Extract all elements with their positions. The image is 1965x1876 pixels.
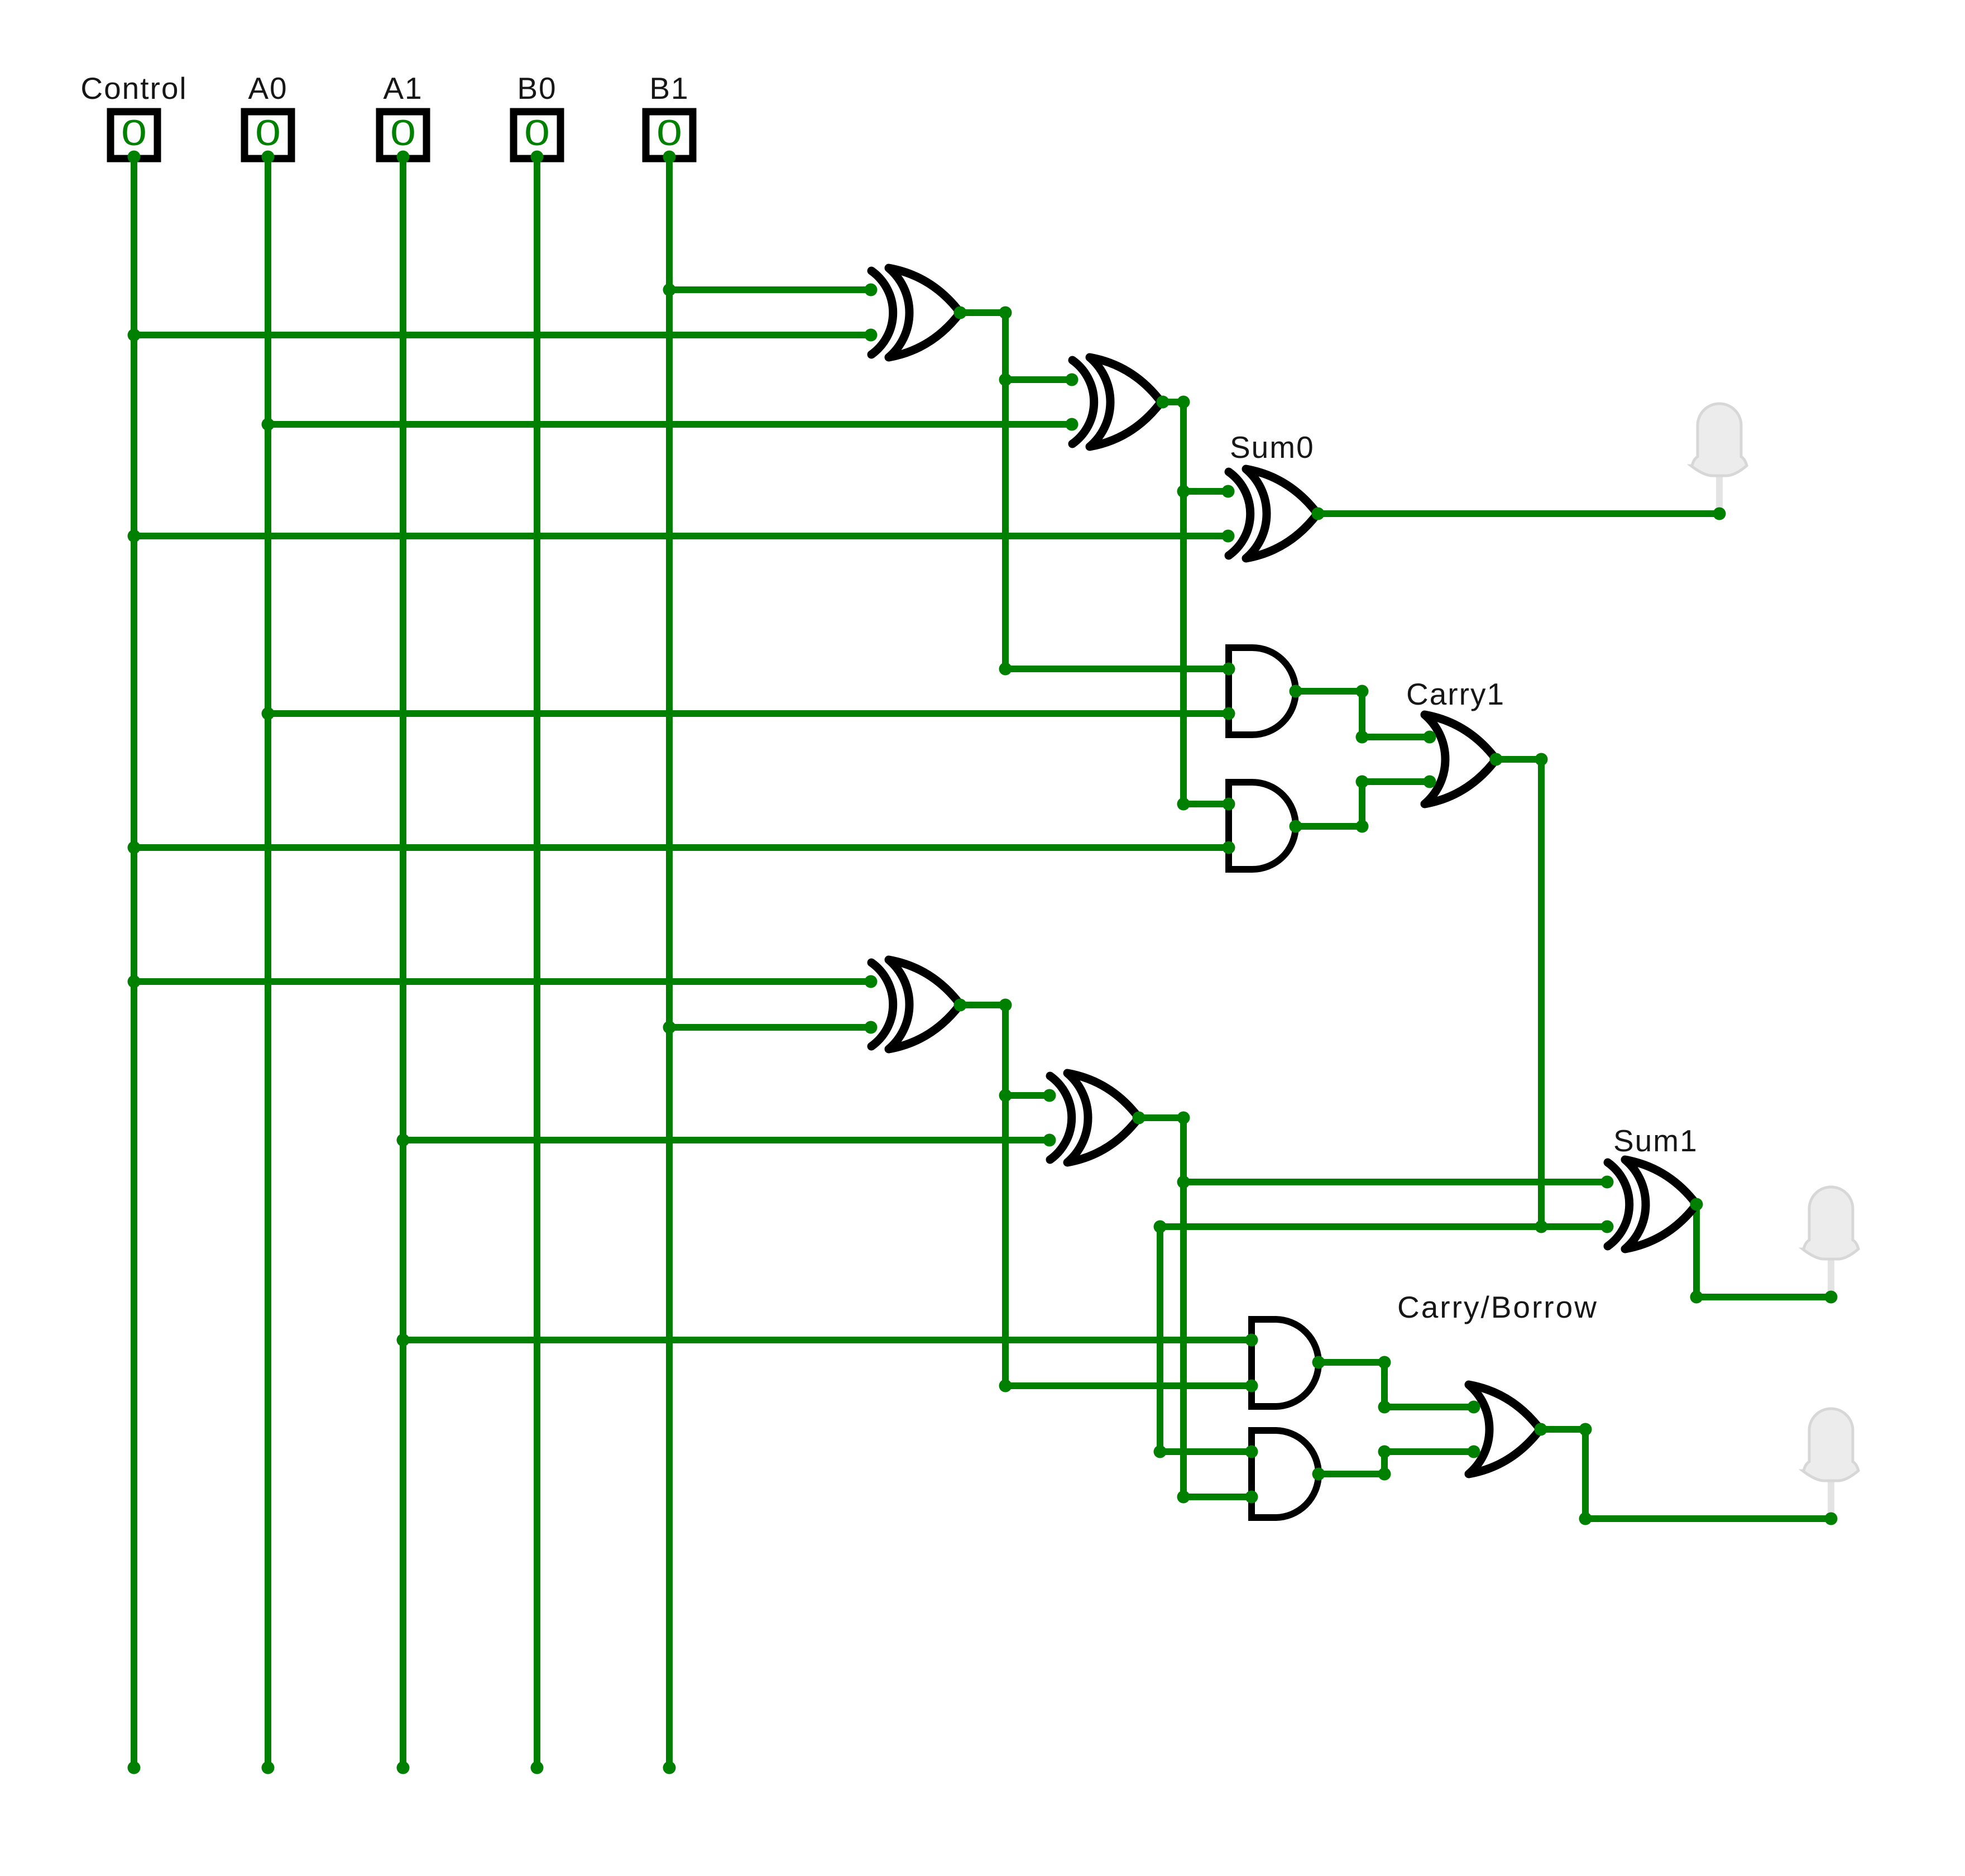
node AND3 input A	[1245, 1334, 1258, 1347]
junction Control-XOR3	[128, 530, 141, 543]
wire Carry1 branch vertical	[1157, 1227, 1163, 1452]
svg-text:B0: B0	[517, 71, 557, 106]
junction XOR1 out corner	[999, 307, 1012, 319]
wire Control column vertical	[131, 157, 137, 1768]
junction AND1 out corner	[1356, 685, 1369, 698]
wire to OR1 input A	[1362, 734, 1430, 740]
wire OR2 output stub	[1541, 1426, 1585, 1433]
LED Sum0	[1691, 404, 1747, 514]
junction Carry1 corner	[1535, 753, 1548, 766]
node A0 output	[262, 151, 275, 164]
junction OR2 inB corner	[1378, 1446, 1391, 1458]
wire Sum0 output to LED1	[1318, 510, 1719, 517]
wire OR1 Carry1 output stub	[1496, 756, 1541, 763]
node OR1 input A	[1424, 731, 1436, 744]
xor-gate XOR1	[871, 268, 960, 357]
wire A0 to AND1 input B	[268, 710, 1229, 717]
node OR2 output	[1535, 1423, 1547, 1436]
svg-text:0: 0	[255, 112, 281, 153]
svg-text:0: 0	[656, 112, 682, 153]
junction Carry1 branch start	[1154, 1221, 1167, 1233]
wire AND1 output vertical	[1359, 691, 1365, 737]
input B1	[646, 112, 693, 159]
junction OR2 inA corner	[1378, 1401, 1391, 1414]
or-gate OR2 Carry/Borrow	[1469, 1385, 1540, 1474]
node XOR6 input B	[1601, 1221, 1614, 1233]
wire to XOR5 input A	[1005, 1092, 1049, 1099]
node XOR6 output	[1690, 1198, 1703, 1211]
node B0 bottom	[531, 1762, 544, 1774]
xor-gate XOR3 Sum0	[1229, 469, 1317, 558]
wire XOR1 output vertical	[1002, 313, 1009, 669]
svg-text:Carry/Borrow: Carry/Borrow	[1397, 1290, 1598, 1324]
junction XOR4 out corner	[999, 999, 1012, 1012]
junction Control-AND2	[128, 841, 141, 854]
node XOR4 output	[954, 999, 967, 1012]
node AND4 output	[1312, 1468, 1325, 1481]
junction XOR4 out tap XOR5	[999, 1089, 1012, 1102]
node A1 bottom	[397, 1762, 410, 1774]
wire A0 to XOR2 input B	[268, 421, 1072, 428]
wire XOR2 output stub	[1163, 399, 1183, 405]
wire XOR5 output stub	[1139, 1114, 1183, 1121]
node AND4 input B	[1245, 1491, 1258, 1504]
svg-text:Carry1: Carry1	[1406, 677, 1505, 711]
wire AND4 output vertical	[1381, 1452, 1388, 1474]
junction Control-XOR4	[128, 975, 141, 988]
svg-text:Control: Control	[80, 71, 187, 106]
svg-text:Sum0: Sum0	[1230, 430, 1315, 465]
xor-gate XOR6 Sum1	[1608, 1160, 1696, 1249]
junction AND3 out corner	[1378, 1356, 1391, 1369]
node XOR3 input B	[1222, 530, 1235, 543]
wire to OR1 input B	[1362, 778, 1430, 785]
junction OR1 inA corner	[1356, 731, 1369, 744]
node LED3 input	[1825, 1513, 1838, 1525]
node AND3 input B	[1245, 1380, 1258, 1392]
node XOR5 input B	[1043, 1134, 1056, 1147]
wire Sum1 output to LED2	[1696, 1294, 1831, 1300]
junction XOR5 out corner AND4	[1177, 1491, 1190, 1504]
wire AND4 output stub	[1319, 1471, 1384, 1477]
node LED2 input	[1825, 1291, 1838, 1304]
node XOR5 output	[1133, 1112, 1146, 1124]
svg-text:0: 0	[524, 112, 550, 153]
wire to AND3 input B	[1005, 1382, 1252, 1389]
wire A1 to AND3 input A	[403, 1337, 1252, 1343]
LED Sum1	[1803, 1187, 1858, 1297]
svg-text:Sum1: Sum1	[1613, 1123, 1698, 1158]
node AND1 input A	[1223, 663, 1235, 676]
node AND3 output	[1312, 1356, 1325, 1369]
junction XOR1 out tap XOR2	[999, 374, 1012, 386]
node XOR1 input A	[865, 284, 878, 296]
node A1 output	[397, 151, 410, 164]
node OR1 input B	[1424, 776, 1436, 788]
wire Control to XOR3 input B	[134, 533, 1228, 539]
node OR2 input A	[1468, 1401, 1480, 1414]
node B1 bottom	[663, 1762, 676, 1774]
junction XOR5 out corner	[1177, 1112, 1190, 1124]
or-gate OR1 Carry1	[1425, 715, 1496, 804]
node XOR1 input B	[865, 329, 878, 342]
node LED1 input	[1713, 508, 1726, 520]
node OR2 input B	[1468, 1446, 1480, 1458]
wire Carry/Borrow to LED3	[1585, 1515, 1831, 1522]
junction B1-XOR1	[663, 284, 676, 296]
wire XOR4 output vertical	[1002, 1005, 1009, 1386]
wire to XOR6 input A	[1183, 1179, 1607, 1185]
node AND4 input A	[1245, 1446, 1258, 1458]
xor-gate XOR2	[1072, 357, 1161, 447]
junction AND2 out corner	[1356, 820, 1369, 833]
junction CarryBorrow corner	[1579, 1423, 1592, 1436]
junction XOR2 out corner	[1177, 396, 1190, 409]
junction A1-AND3	[397, 1334, 410, 1347]
node XOR2 output	[1157, 396, 1170, 409]
node AND2 input A	[1223, 798, 1235, 811]
node B0 output	[531, 151, 544, 164]
node XOR6 input A	[1601, 1176, 1614, 1189]
wire A1 column vertical	[400, 157, 406, 1768]
wire B1 column vertical	[666, 157, 673, 1768]
LED Carry/Borrow	[1803, 1409, 1858, 1519]
node B1 output	[663, 151, 676, 164]
wire B1 to XOR4 input B	[669, 1024, 871, 1031]
wire to OR2 input A	[1384, 1404, 1474, 1410]
junction OR1 inB corner	[1356, 776, 1369, 788]
junction AND4 out corner	[1378, 1468, 1391, 1481]
junction XOR1 out corner AND1	[999, 663, 1012, 676]
junction Carry1-XOR6	[1535, 1221, 1548, 1233]
node AND2 input B	[1223, 841, 1235, 854]
junction Control-XOR1	[128, 329, 141, 342]
node AND1 output	[1290, 685, 1302, 698]
junction A1-XOR5	[397, 1134, 410, 1147]
wire to OR2 input B	[1384, 1448, 1474, 1455]
node XOR4 input A	[865, 975, 878, 988]
node A0 bottom	[262, 1762, 275, 1774]
wire AND3 output vertical	[1381, 1362, 1388, 1407]
junction B1-XOR4	[663, 1021, 676, 1034]
junction Carry1 branch corner AND4	[1154, 1446, 1167, 1458]
wire AND2 output vertical	[1359, 782, 1365, 826]
wire XOR4 output stub	[960, 1002, 1005, 1008]
and-gate AND3	[1252, 1319, 1319, 1406]
wire A0 column vertical	[265, 157, 271, 1768]
junction A0-AND1	[262, 707, 275, 720]
wire to AND2 input A	[1183, 801, 1229, 807]
svg-text:A0: A0	[248, 71, 287, 106]
and-gate AND1	[1229, 648, 1296, 735]
wire Control to XOR1 input B	[134, 332, 871, 338]
and-gate AND2	[1229, 782, 1296, 869]
wire B0 column vertical	[534, 157, 540, 1768]
wire Sum1 output vertical	[1693, 1204, 1700, 1297]
wire Carry1 to XOR6 input B	[1160, 1223, 1607, 1230]
node AND2 output	[1290, 820, 1302, 833]
junction Sum1 corner	[1690, 1291, 1703, 1304]
node XOR3 input A	[1222, 485, 1235, 498]
wire to XOR3 input A	[1183, 488, 1228, 495]
wire AND2 output stub	[1296, 823, 1362, 830]
node OR1 output	[1490, 753, 1503, 766]
node XOR2 input B	[1066, 418, 1079, 431]
input Control	[111, 112, 157, 159]
wire AND1 output stub	[1296, 688, 1362, 695]
node XOR1 output	[954, 307, 967, 319]
input A0	[245, 112, 291, 159]
svg-text:B1: B1	[649, 71, 689, 106]
node XOR2 input A	[1066, 374, 1079, 386]
xor-gate XOR5	[1050, 1073, 1139, 1162]
and-gate AND4	[1252, 1430, 1319, 1518]
junction A0-XOR2	[262, 418, 275, 431]
wire to AND1 input A	[1005, 666, 1229, 672]
junction CarryBorrow corner2	[1579, 1513, 1592, 1525]
input B0	[514, 112, 560, 159]
node AND1 input B	[1223, 707, 1235, 720]
wire B1 to XOR1 input A	[669, 286, 871, 293]
wire AND3 output stub	[1319, 1359, 1384, 1366]
xor-gate XOR4	[871, 960, 960, 1049]
wire Control to XOR4 input A	[134, 978, 871, 985]
wire XOR1 output stub	[960, 309, 1005, 316]
junction XOR4 out corner AND3	[999, 1380, 1012, 1392]
wire A1 to XOR5 input B	[403, 1137, 1049, 1143]
wire to AND4 input B	[1183, 1494, 1252, 1500]
junction XOR5 out tap XOR6	[1177, 1176, 1190, 1189]
node XOR3 output	[1312, 508, 1325, 520]
svg-text:A1: A1	[383, 71, 423, 106]
node XOR4 input B	[865, 1021, 878, 1034]
svg-text:0: 0	[121, 112, 147, 153]
wire to XOR2 input A	[1005, 376, 1072, 383]
junction XOR2 out tap XOR3	[1177, 485, 1190, 498]
wire to AND4 input A	[1160, 1448, 1252, 1455]
wire Control to AND2 input B	[134, 844, 1229, 851]
node XOR5 input A	[1043, 1089, 1056, 1102]
wire XOR5 output vertical	[1180, 1118, 1187, 1497]
svg-text:0: 0	[390, 112, 416, 153]
junction XOR2 out corner AND2	[1177, 798, 1190, 811]
wire OR2 output vertical	[1582, 1429, 1589, 1519]
node Control output	[128, 151, 141, 164]
wire XOR2 output vertical	[1180, 402, 1187, 804]
input A1	[380, 112, 426, 159]
node Control bottom	[128, 1762, 141, 1774]
wire Carry1 vertical	[1538, 759, 1545, 1227]
